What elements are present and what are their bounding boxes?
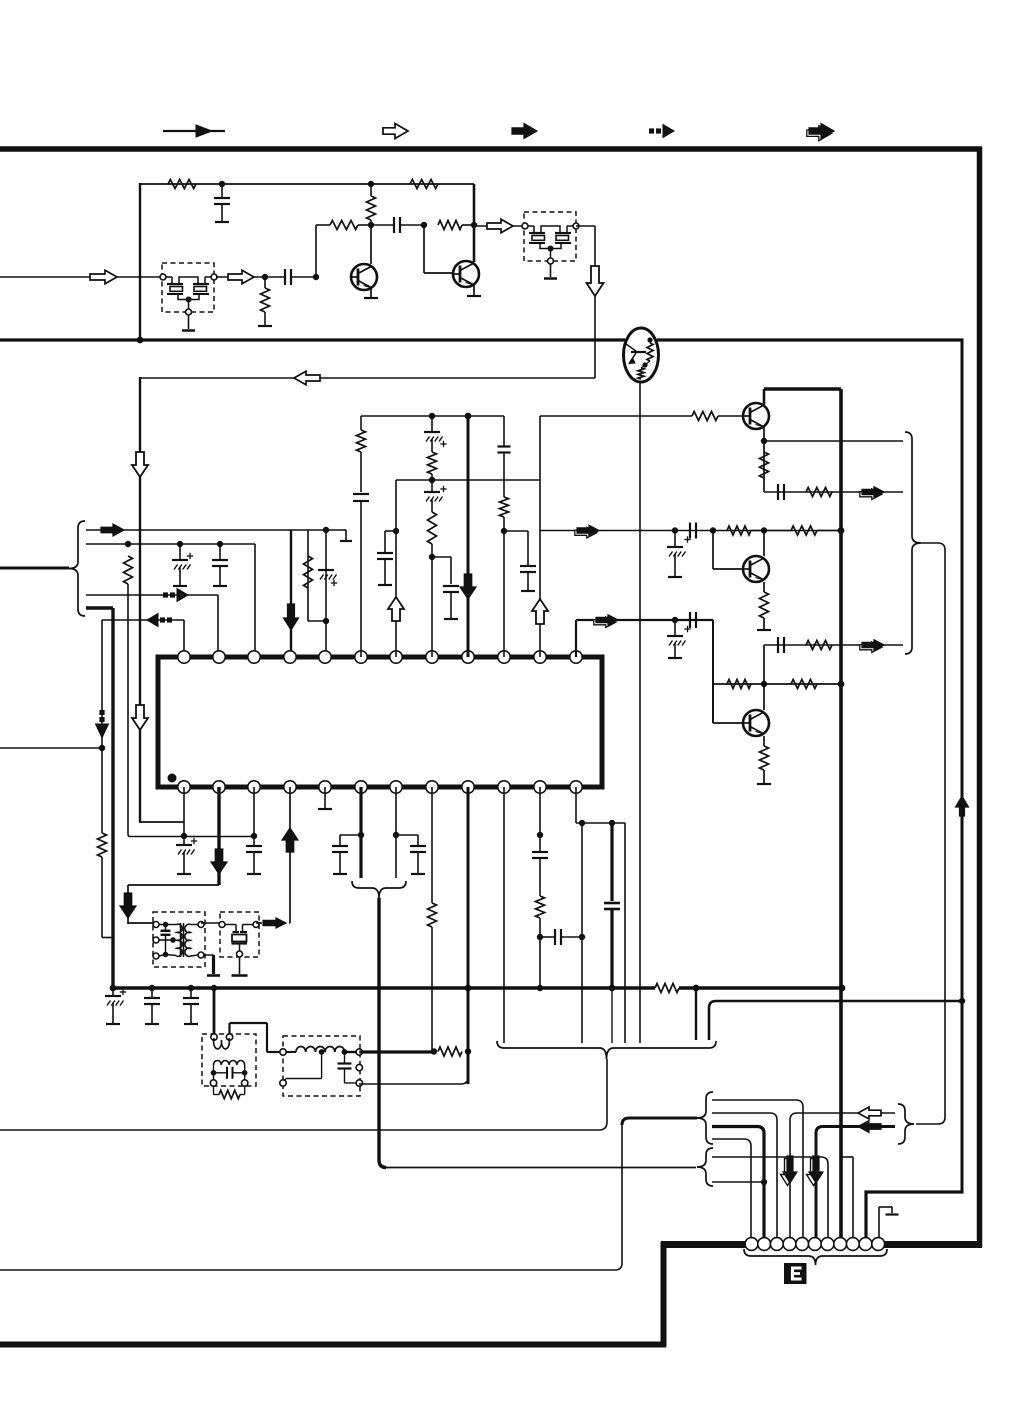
pin b3 chain bbox=[253, 787, 255, 846]
discriminator X1 box bbox=[220, 912, 259, 957]
Q2 emitter ground bbox=[473, 285, 475, 295]
CF2 ground bbox=[550, 264, 552, 277]
solid left arrow bbox=[858, 1121, 881, 1133]
node SIF junction bbox=[465, 1048, 471, 1054]
solid arrow to pin b4 bbox=[263, 918, 286, 928]
resistor audio b bbox=[791, 680, 817, 689]
thick bus x841 bbox=[839, 389, 843, 1244]
node b7 bbox=[393, 832, 399, 838]
connector brace2 bbox=[697, 1148, 713, 1186]
dotted down arrow on x102 bbox=[99, 710, 104, 715]
thick wire from page edge to brace bbox=[0, 567, 69, 570]
X1 right terminal bbox=[253, 922, 259, 928]
node t5 lower bbox=[323, 618, 329, 624]
pin b7 line bbox=[395, 787, 397, 878]
T2 top winding bbox=[214, 1038, 230, 1049]
resistor on x102 bbox=[98, 833, 107, 857]
elco below b1 bbox=[183, 836, 185, 845]
feedback resistor bbox=[330, 221, 358, 230]
ceramic filter CF1 box and elements bbox=[162, 263, 214, 312]
Q1R base resistor bbox=[692, 412, 718, 421]
coupling capacitor C-in bbox=[265, 276, 285, 278]
transistor Q3R bbox=[743, 710, 769, 736]
hollow arrow on video line bbox=[575, 528, 597, 538]
Q3R emitter resistor bbox=[763, 736, 765, 746]
row1 capacitor bbox=[777, 484, 779, 500]
transistor Q2R bbox=[743, 556, 769, 582]
thick vertical x113 bbox=[111, 608, 114, 989]
T1 core bbox=[180, 923, 182, 957]
row2 to Q3R collector bbox=[763, 645, 765, 710]
brace to AFT line bbox=[916, 543, 945, 1124]
x625 drop line bbox=[624, 823, 626, 1043]
solid down arrow c6 bbox=[807, 1159, 821, 1186]
wire L2 bbox=[86, 543, 255, 545]
t10 drop to pin bbox=[503, 531, 505, 657]
T1 secondary winding bbox=[185, 924, 191, 956]
stub line c9 bbox=[841, 1156, 853, 1158]
SIF line to brace2 bbox=[384, 1167, 696, 1169]
riser x214 from rail bbox=[213, 988, 216, 1034]
IC bottom pins bbox=[178, 781, 190, 793]
elco below rail x113 bbox=[112, 988, 114, 996]
node Q1 collector bbox=[368, 222, 374, 228]
node video right bbox=[710, 527, 716, 533]
node rail x696 bbox=[693, 985, 700, 992]
Q1 base feedback vertical bbox=[315, 225, 317, 277]
T2 damping resistor bbox=[213, 1086, 215, 1095]
mid bias line y480 bbox=[396, 479, 540, 481]
legend dotted-solid arrow bbox=[649, 128, 654, 133]
node t10 bbox=[501, 528, 507, 534]
segA right end cap bbox=[503, 416, 505, 446]
node L2 a bbox=[125, 541, 131, 547]
cap branch left of b6 bbox=[340, 834, 361, 836]
x102 bottom segment bbox=[101, 857, 103, 938]
T1 secondary bottom wire bbox=[204, 954, 214, 956]
rail resistor bbox=[655, 984, 679, 993]
AGC wire y620 bbox=[102, 619, 184, 621]
interstage capacitor bbox=[371, 224, 394, 226]
long line x128 down bbox=[127, 584, 129, 834]
transistor Q1R bbox=[743, 403, 769, 429]
T2 terminal t1 bbox=[211, 1034, 217, 1040]
vertical feed line x140 upper bbox=[139, 183, 141, 341]
L1 tap to pin t4 bbox=[290, 530, 292, 657]
top supply rail bbox=[140, 183, 474, 185]
node Q2 base feed bbox=[421, 222, 427, 228]
node segA x432 bbox=[429, 413, 435, 419]
oval bottom lead bbox=[639, 381, 641, 1043]
legend signal-path arrow bbox=[163, 130, 225, 132]
hollow down arrow on CF2 output bbox=[587, 266, 604, 296]
wire arrow to b4 riser bbox=[289, 922, 290, 924]
t8 branch capacitor bbox=[432, 556, 451, 558]
wire L1c bbox=[712, 1100, 803, 1239]
return wire to mixer bbox=[140, 377, 595, 379]
elco to gnd on video line bbox=[674, 530, 676, 547]
FL1 node right bbox=[342, 1049, 348, 1055]
node bus y684 bbox=[838, 681, 845, 688]
solid down arrow on b2 bbox=[211, 849, 227, 874]
legend shadow arrow bbox=[807, 126, 832, 141]
solid left arrow line thick bbox=[816, 1127, 895, 1240]
wire L4c bbox=[712, 1139, 751, 1239]
wire L3c thick bbox=[712, 1127, 764, 1240]
L3 drop to pin t2 bbox=[217, 595, 219, 657]
thick line x612 with cap bbox=[610, 823, 613, 901]
T1 terminal br bbox=[198, 952, 204, 958]
pin b11 chain bbox=[539, 787, 541, 852]
right outputs brace bbox=[905, 432, 921, 654]
T1 primary winding bbox=[170, 937, 176, 943]
brace tail to page edge bbox=[0, 1059, 607, 1130]
t10 branch cap bbox=[504, 530, 528, 532]
solid down arrow to T1 bbox=[120, 893, 136, 918]
node audio elco bbox=[672, 617, 678, 623]
hollow left arrow line bbox=[790, 1113, 895, 1239]
ground stub near connector bbox=[878, 1207, 880, 1239]
t5 branch resistor bbox=[308, 620, 326, 622]
Q1R emitter wire bbox=[763, 427, 765, 492]
thin continuation x612 below rail bbox=[611, 988, 613, 1043]
node L2 c bbox=[217, 541, 223, 547]
node rail x842 bbox=[839, 985, 846, 992]
thick AGC line t9 bbox=[467, 416, 470, 657]
wire from edge y1270 bbox=[0, 1125, 622, 1270]
resistor node to bus bbox=[791, 526, 817, 535]
wire X1 to arrow bbox=[256, 922, 262, 924]
transistor Q2 bbox=[453, 261, 479, 287]
Q1R emitter node bbox=[761, 438, 767, 444]
hollow up arrow on t7 line bbox=[388, 597, 404, 621]
audio out line y620 bbox=[576, 619, 713, 621]
pin b1 chain bbox=[183, 787, 185, 836]
rail resistor bbox=[168, 180, 196, 189]
AFT out row1 bbox=[764, 491, 903, 493]
thick border bottom edge bbox=[0, 1342, 666, 1348]
node rail x540 bbox=[537, 985, 543, 991]
pin b4 riser bbox=[289, 787, 291, 923]
brace joining b6 b7 bbox=[352, 881, 406, 898]
node video bus join bbox=[761, 527, 767, 533]
node rail x113 bbox=[110, 985, 117, 992]
T1 terminal tr bbox=[198, 922, 204, 928]
cap below rail x152 bbox=[151, 988, 153, 998]
x582 riser bbox=[581, 823, 583, 937]
thick line pin b2 bbox=[217, 787, 220, 885]
wire Q2 to CF2 bbox=[474, 225, 525, 227]
Q1 collector wire bbox=[370, 225, 372, 264]
thick SIF line x379 bbox=[379, 898, 386, 1168]
Q1 emitter ground bbox=[370, 287, 372, 297]
vertical feed line x140 lower bbox=[139, 377, 141, 823]
wire L1 video bbox=[86, 529, 343, 531]
node t7 cap branch bbox=[393, 528, 399, 534]
node b1 bbox=[181, 833, 187, 839]
FL1 coil bbox=[286, 1051, 296, 1053]
IC body bbox=[158, 657, 602, 787]
hollow left arrow bbox=[858, 1107, 881, 1119]
Q1 collector load resistor bbox=[367, 196, 376, 220]
T1 terminal ml bbox=[153, 937, 159, 943]
pin b5 ground stub bbox=[324, 787, 326, 808]
inner border horizontal right of oval bbox=[657, 338, 964, 341]
solid down arrow on t9 bbox=[460, 574, 476, 599]
supply link y1001 bbox=[709, 1001, 962, 1040]
resistor FL1 out bbox=[438, 1047, 462, 1056]
cap branch right of b7 bbox=[396, 834, 418, 836]
cap below rail x191 bbox=[190, 988, 192, 998]
elco below L2b bbox=[179, 544, 181, 560]
wire L2c bbox=[712, 1113, 777, 1239]
shadow arrow row2 bbox=[860, 642, 882, 652]
hollow up arrow on t11 bbox=[532, 599, 548, 624]
node b12 x582 bbox=[579, 820, 585, 826]
SIF transformer T2 box bbox=[202, 1034, 256, 1086]
elco to gnd on audio line bbox=[674, 620, 676, 636]
row1 resistor bbox=[806, 488, 832, 497]
input hollow arrow bbox=[90, 270, 117, 284]
node video elco bbox=[672, 527, 678, 533]
wire to T1 top bbox=[128, 922, 156, 924]
T2 bottom terminals bbox=[210, 1080, 216, 1086]
hollow down arrow on x140 bbox=[132, 452, 148, 477]
thick supply top wire bbox=[764, 387, 841, 390]
node b6 bbox=[358, 832, 364, 838]
node b3 bbox=[251, 833, 257, 839]
video out line y530 bbox=[540, 530, 841, 532]
FL1 coil mid tap bbox=[319, 1049, 325, 1055]
t11 vertical from corner bbox=[539, 416, 541, 657]
FL1 terminal r2 bbox=[356, 1064, 362, 1070]
wire L5c bbox=[712, 1157, 828, 1239]
shadow down arrow c4 bbox=[781, 1159, 795, 1186]
wire CF1 to node bbox=[216, 276, 265, 278]
thick border left drop bbox=[661, 1242, 667, 1347]
thick line pin b9 bbox=[467, 787, 470, 1084]
FL1 terminal left bbox=[280, 1049, 286, 1055]
bias line segA y416 bbox=[361, 415, 504, 417]
wire x622 to brace1 bbox=[622, 1118, 697, 1125]
dotted arrow on L3 bbox=[163, 592, 168, 597]
capacitor below L2c bbox=[219, 544, 221, 560]
node rail x152 bbox=[149, 985, 155, 991]
FL1 terminal r3 bbox=[356, 1080, 362, 1086]
direction arrow up on inner border bbox=[956, 796, 969, 816]
node segA x468 bbox=[465, 413, 472, 420]
series elco on video line bbox=[689, 523, 691, 539]
inner border horizontal left of oval bbox=[0, 338, 625, 341]
resistor to Q2 collector bbox=[438, 221, 462, 230]
node Q2 collector bbox=[471, 222, 477, 228]
connector CN1 pins bbox=[745, 1238, 758, 1251]
node audio mid bbox=[761, 681, 767, 687]
FL1 out thick wire bbox=[359, 1050, 434, 1053]
t8 chain from segA bbox=[431, 416, 433, 432]
L1 end stub bbox=[343, 529, 346, 531]
t7 vertical bbox=[395, 480, 397, 657]
node at R-divider bbox=[262, 274, 268, 280]
inner border jog vertical to connector bbox=[864, 1191, 867, 1240]
Q2 collector supply drop bbox=[473, 184, 476, 262]
resistor R-in to ground bbox=[264, 277, 266, 288]
FL1 terminal bl bbox=[280, 1080, 286, 1086]
shadow arrow row1 bbox=[860, 489, 882, 499]
IC pin-1 marker bbox=[168, 774, 177, 783]
node t8 cap branch bbox=[429, 554, 435, 560]
AGC drop to pin t1 bbox=[183, 620, 185, 657]
vertical x102 bbox=[101, 620, 103, 833]
T1 primary capacitor bbox=[159, 924, 177, 926]
pin b10 line bbox=[503, 787, 505, 1043]
node y1001 on inner border bbox=[959, 998, 965, 1004]
Q2 base wire bbox=[423, 225, 425, 273]
connector label E bbox=[784, 1263, 807, 1284]
row2 resistor bbox=[806, 641, 832, 650]
Q1R emitter resistor bbox=[760, 452, 769, 478]
b2 jog to transformer bbox=[128, 884, 219, 886]
node x612 rail bbox=[609, 985, 616, 992]
thick border connector-left segment bbox=[661, 1241, 748, 1248]
node L2 b bbox=[177, 541, 183, 547]
elco on t5 chain bbox=[318, 569, 334, 571]
bandpass filter FL1 box bbox=[283, 1036, 360, 1096]
left brace for IF inputs bbox=[69, 521, 85, 616]
X1 resonator bbox=[225, 924, 236, 926]
T2 terminal t2 bbox=[226, 1034, 232, 1040]
wire x140 to IC pin b1 bbox=[140, 821, 184, 823]
resistor audio a bbox=[727, 680, 751, 689]
node L1 x326 bbox=[323, 527, 329, 533]
audio row y684 bbox=[712, 620, 714, 723]
resistor video to node bbox=[727, 526, 751, 535]
solid arrow on L1 bbox=[101, 524, 124, 536]
node rail decoupling bbox=[219, 181, 225, 187]
cap below b3 bbox=[246, 845, 262, 847]
connector brace1 bbox=[697, 1092, 713, 1144]
node y480 x432 bbox=[429, 477, 435, 483]
connector right brace bbox=[898, 1104, 914, 1144]
T1 terminal bl bbox=[153, 953, 159, 959]
row2 capacitor bbox=[777, 637, 779, 653]
b11 branch cap bbox=[540, 936, 554, 938]
wire emitter to brace bbox=[764, 440, 903, 442]
t8 chain lower bbox=[431, 480, 433, 492]
thick line pin b6 bbox=[359, 787, 362, 878]
rail decoupling capacitor bbox=[221, 184, 223, 198]
thick border right edge bbox=[977, 147, 983, 1247]
CF1 ground bbox=[188, 315, 190, 329]
node rail x214 bbox=[211, 985, 217, 991]
Q1R base line bbox=[540, 415, 692, 417]
wire b9 corner to FL1 bottom bbox=[359, 1052, 468, 1084]
thick border top edge bbox=[0, 146, 982, 152]
inner border right vertical bbox=[961, 339, 964, 1194]
wire from page edge y748 bbox=[0, 747, 102, 749]
legend hollow arrow bbox=[383, 124, 408, 139]
inner border jog horizontal bbox=[865, 1190, 964, 1193]
T2 lower winding bbox=[214, 1060, 245, 1065]
junction x102 y748 bbox=[99, 745, 105, 751]
Q2R base wire bbox=[712, 531, 714, 570]
X1 ground bbox=[239, 957, 241, 974]
node Q1 base bbox=[313, 274, 319, 280]
group brace over SIF lines bbox=[497, 1041, 716, 1059]
connector brace bbox=[744, 1249, 887, 1265]
hollow arrow to CF2 bbox=[487, 219, 513, 233]
node rail right bbox=[368, 181, 374, 187]
t6 chain corner bbox=[360, 416, 362, 430]
ground rail y988 bbox=[113, 986, 655, 989]
pin b8 line bbox=[431, 787, 433, 903]
video out row2 bbox=[764, 644, 903, 646]
shadow arrow on audio line bbox=[594, 617, 616, 627]
T2 out wire bbox=[228, 1023, 230, 1034]
node b11 low bbox=[537, 934, 543, 940]
wire L6c bbox=[712, 1181, 764, 1183]
node b9 rail bbox=[465, 985, 472, 992]
rail resistor 2 bbox=[410, 180, 438, 189]
Q3R base wire bbox=[713, 722, 743, 724]
thick wire L4 bbox=[86, 606, 113, 609]
FL1 cap bbox=[344, 1052, 346, 1063]
hollow arrow after CF1 bbox=[228, 270, 254, 284]
transistor Q1 bbox=[351, 264, 377, 290]
second hollow down arrow on x140 bbox=[132, 705, 148, 730]
IF transformer T1 box bbox=[153, 912, 205, 967]
oval transistor Q-AGC bbox=[624, 328, 659, 382]
node bus y530 bbox=[838, 527, 845, 534]
Q2R emitter resistor bbox=[763, 582, 765, 592]
node rail x191 bbox=[188, 985, 194, 991]
solid up arrow on b4 riser bbox=[282, 828, 298, 852]
pin t5 bias chain vertical bbox=[325, 530, 327, 657]
node b12 x612 bbox=[609, 820, 615, 826]
thick border bottom-right segment bbox=[884, 1241, 982, 1248]
resistor below L2a bbox=[124, 556, 133, 584]
pin b12 jog bbox=[575, 787, 577, 823]
X1 left terminal bbox=[219, 922, 225, 928]
rail drop x696 bbox=[695, 988, 697, 1040]
T1 to discriminator wire bbox=[201, 922, 222, 924]
t7 branch capacitor bbox=[385, 530, 396, 532]
FL1 terminal r1 bbox=[356, 1049, 362, 1055]
audio out line y620 vertical from t12 bbox=[575, 620, 577, 657]
wire CF2 output bbox=[576, 225, 595, 227]
series elco on audio line bbox=[689, 612, 691, 628]
node x582 bbox=[579, 934, 585, 940]
ceramic filter CF2 box and elements bbox=[524, 212, 576, 261]
T2 parallel cap bbox=[211, 1070, 217, 1076]
Q1R collector wire bbox=[763, 389, 766, 405]
dotted arrow left on AGC wire bbox=[147, 614, 158, 627]
L2 drop to pin t3 bbox=[254, 544, 256, 657]
wire L3 bbox=[86, 594, 218, 596]
node FL1 out bbox=[431, 1048, 437, 1054]
Q2R collector wire bbox=[763, 531, 765, 557]
node L6 join bbox=[761, 1179, 767, 1185]
legend solid arrow bbox=[512, 124, 537, 139]
input wire from page edge bbox=[0, 276, 160, 278]
X1 bottom terminal bbox=[237, 951, 243, 957]
T1 terminal tl bbox=[153, 922, 159, 928]
t10 chain resistor bbox=[500, 497, 509, 517]
junction x140 on inner border bbox=[137, 337, 144, 344]
IC top pins 1-12 bbox=[178, 651, 190, 663]
solid down arrow on t4 line bbox=[284, 604, 299, 630]
hollow left arrow on return wire bbox=[294, 371, 320, 385]
